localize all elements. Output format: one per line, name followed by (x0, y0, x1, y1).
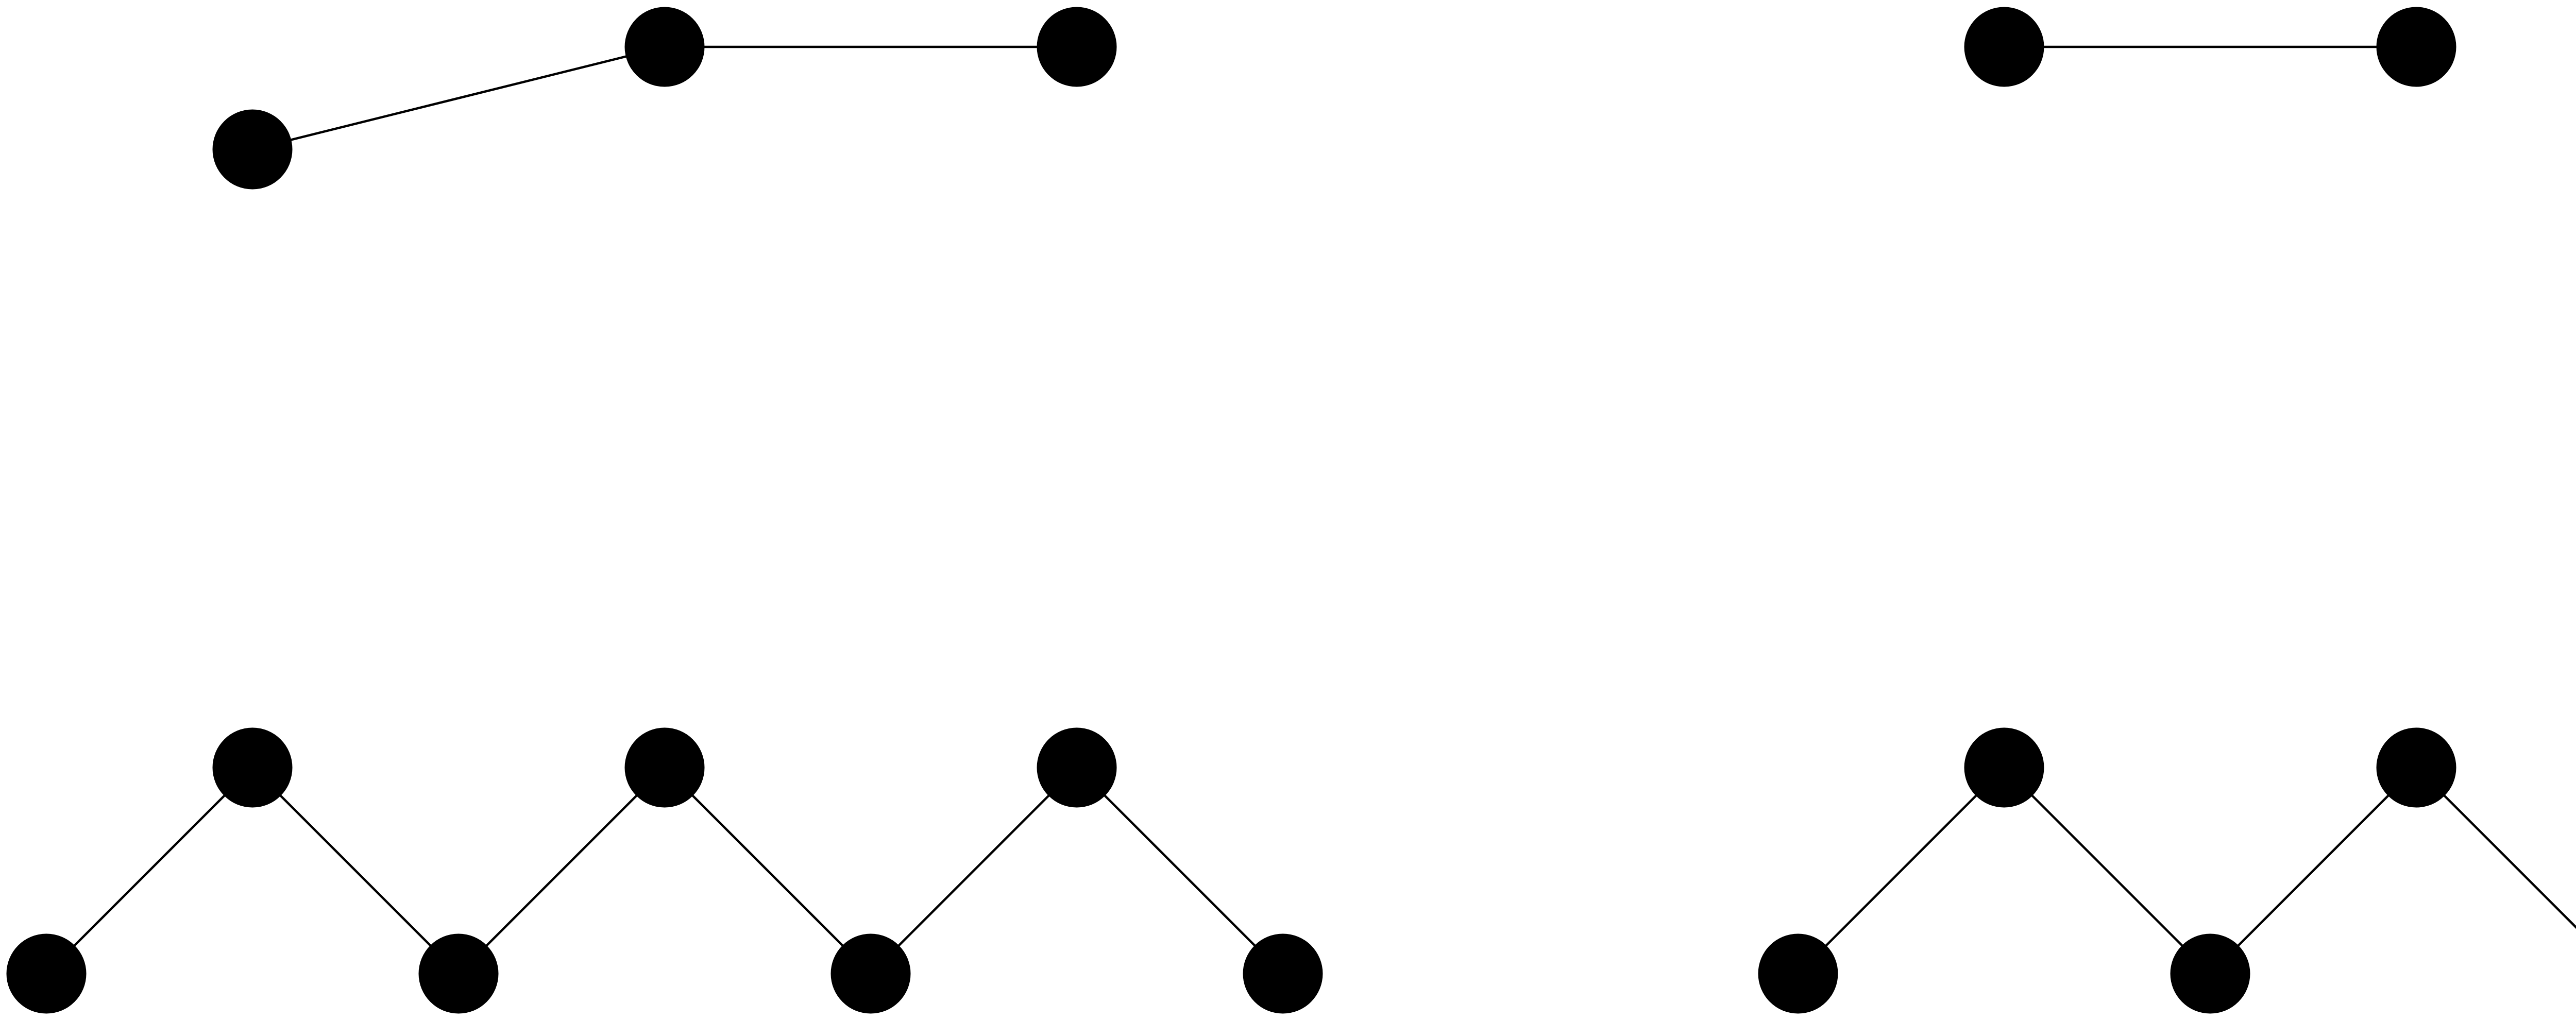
wire edge D4-D5 (2416, 768, 2576, 974)
wire edge D2-D3 (2004, 768, 2210, 974)
wire edge C5-C6 (871, 768, 1077, 974)
node C3 (419, 934, 499, 1014)
node C4 (625, 728, 705, 808)
wire edge C1-C2 (46, 768, 252, 974)
wire edge C4-C5 (665, 768, 871, 974)
wire edge D1-D2 (1798, 768, 2004, 974)
wire edge C6-C7 (1077, 768, 1283, 974)
node C2 (213, 728, 293, 808)
node C6 (1037, 728, 1117, 808)
node C7 (1243, 934, 1323, 1014)
wire edge C3-C4 (459, 768, 665, 974)
node D1 (1758, 934, 1838, 1014)
node B1 (1964, 7, 2044, 87)
wire edge D3-D4 (2210, 768, 2416, 974)
node D3 (2171, 934, 2250, 1014)
node B2 (2377, 7, 2456, 87)
node C5 (831, 934, 911, 1014)
node C1 (7, 934, 87, 1014)
node A3 (1037, 7, 1117, 87)
node A2 (625, 7, 705, 87)
node D2 (1964, 728, 2044, 808)
node A1 (213, 110, 293, 190)
wire edge A2-A3 (665, 46, 1077, 48)
node D4 (2377, 728, 2456, 808)
wire edge A1-A2 (252, 47, 665, 149)
wire edge B1-B2 (2004, 46, 2416, 48)
wire edge C2-C3 (252, 768, 459, 974)
